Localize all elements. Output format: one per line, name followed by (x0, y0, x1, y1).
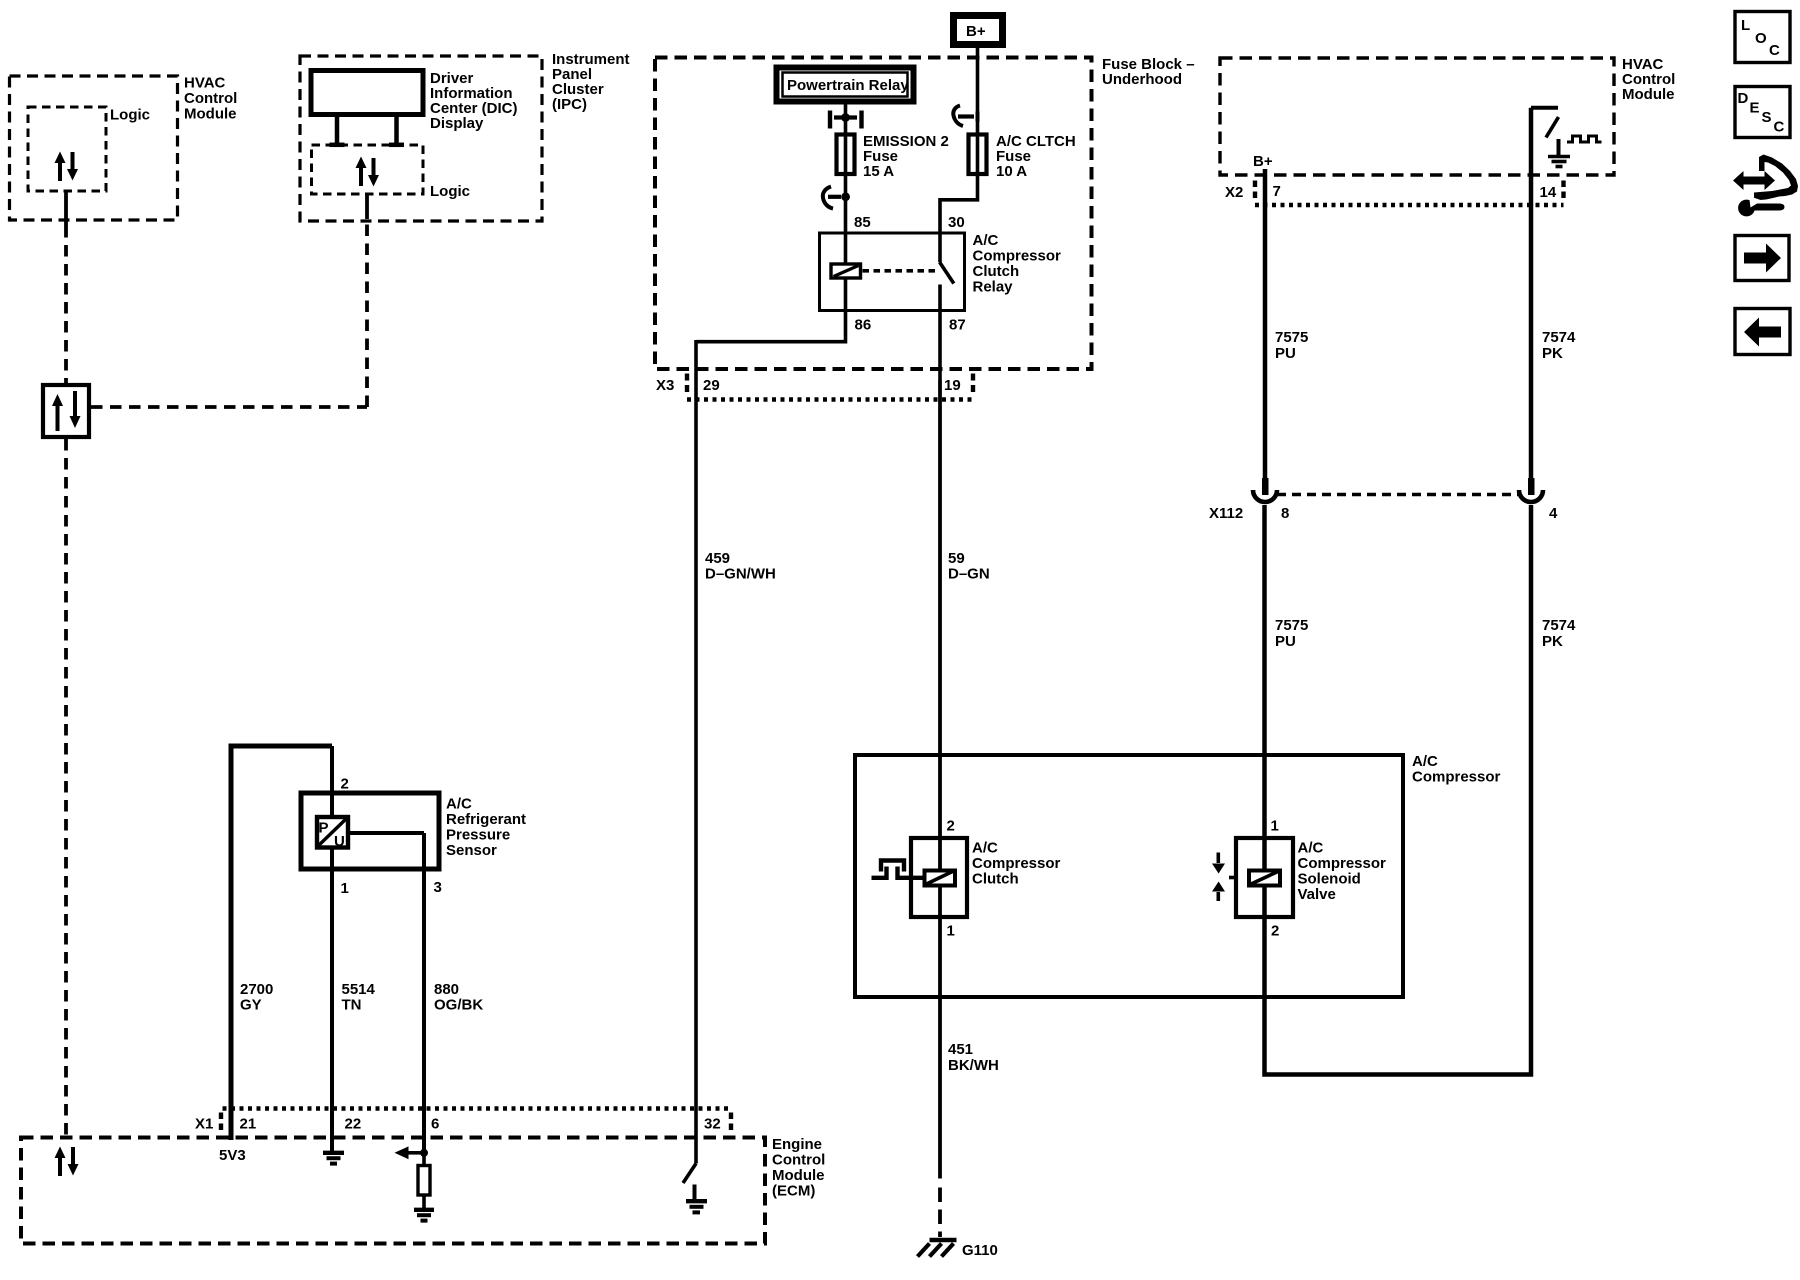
svg-text:Clutch: Clutch (973, 263, 1020, 280)
wire 7574 PK lower (X112-4 to solenoid pin 2) (1265, 505, 1532, 1075)
svg-text:451: 451 (948, 1041, 973, 1058)
relay coil to switch dashed link (863, 269, 937, 273)
svg-text:1: 1 (341, 880, 349, 897)
terminal bracket symbol under Powertrain Relay (828, 111, 832, 129)
svg-text:X3: X3 (656, 377, 674, 394)
svg-text:Relay: Relay (973, 279, 1014, 296)
svg-text:D–GN: D–GN (948, 566, 990, 583)
svg-text:7575: 7575 (1275, 329, 1308, 346)
forward arrow icon box (1735, 236, 1789, 281)
wire 5514 TN (sensor pin 1 to X1-22) (330, 848, 334, 1152)
svg-text:2700: 2700 (240, 981, 273, 998)
svg-text:OG/BK: OG/BK (434, 997, 483, 1014)
svg-text:Refrigerant: Refrigerant (446, 811, 526, 828)
P/U transducer square (317, 817, 348, 848)
svg-text:Control: Control (184, 90, 237, 107)
Driver Information Center (DIC) Display box (311, 71, 423, 115)
svg-text:7575: 7575 (1275, 617, 1308, 634)
X3 connector dotted row (687, 397, 973, 401)
X112 dashed link (1277, 493, 1518, 497)
solenoid coil (1249, 871, 1280, 886)
X112 inline connector pin 8 (male bar + female cup) (1262, 478, 1269, 495)
X112 inline connector pin 4 (male bar + female cup) (1528, 478, 1535, 495)
dashed serial data wire from node box down to ECM (64, 439, 68, 1137)
wire 880 OG/BK (sensor pin 3 to X1-6) (422, 833, 426, 1153)
svg-text:X1: X1 (195, 1116, 213, 1133)
schematic navigation icon (double arrow, chevron arrow, wrench) (1733, 155, 1798, 217)
svg-text:U: U (334, 833, 345, 850)
svg-text:1: 1 (1271, 818, 1279, 835)
svg-text:87: 87 (949, 317, 966, 334)
serial data node box (43, 385, 89, 437)
svg-text:Logic: Logic (430, 183, 470, 200)
ECM serial data up/down arrows (58, 1156, 62, 1176)
svg-text:Compressor: Compressor (972, 855, 1061, 872)
svg-text:7574: 7574 (1542, 617, 1576, 634)
svg-text:(IPC): (IPC) (552, 96, 587, 113)
svg-text:X2: X2 (1225, 184, 1243, 201)
HVAC right internal ground (1557, 139, 1561, 155)
svg-text:B+: B+ (1253, 153, 1273, 170)
A/C Compressor Clutch Relay box (820, 233, 965, 311)
IPC logic up/down arrows (359, 166, 363, 186)
DESC icon box (1735, 87, 1790, 138)
svg-text:2: 2 (341, 776, 349, 793)
clutch coil (925, 871, 956, 886)
svg-text:7: 7 (1273, 183, 1281, 200)
wire from HVAC left logic (solid then dashed serial data) (64, 191, 68, 226)
wire 7575 PU upper (X2-7 to X112-8) (1263, 169, 1268, 479)
wire IPC logic stub (365, 194, 369, 219)
HVAC right PWM square-wave symbol (1567, 136, 1602, 142)
solenoid valve arrows symbol (1217, 853, 1221, 864)
HVAC Control Module (right) dashed box (1220, 58, 1614, 175)
svg-text:B+: B+ (966, 23, 986, 40)
wire sensor top horizontal (229, 744, 333, 749)
svg-text:E: E (1750, 100, 1760, 117)
svg-text:O: O (1755, 30, 1767, 47)
svg-text:29: 29 (703, 377, 720, 394)
X2 connector right bracket (1561, 181, 1565, 201)
back arrow icon box (1735, 309, 1790, 355)
relay coil (831, 264, 861, 278)
splice tap symbol on EMISSION 2 wire (823, 187, 833, 209)
svg-text:Module: Module (772, 1167, 825, 1184)
svg-text:2: 2 (947, 818, 955, 835)
svg-text:A/C: A/C (973, 232, 999, 249)
svg-text:2: 2 (1271, 923, 1279, 940)
svg-text:S: S (1762, 109, 1772, 126)
svg-text:85: 85 (854, 214, 871, 231)
Fuse Block - Underhood dashed box (655, 58, 1092, 370)
wire 59 D-GN (X3-19 to compressor clutch) (938, 380, 942, 869)
X3 connector right bracket (971, 374, 975, 397)
wire relay 87 to X3-19 (938, 311, 942, 381)
svg-text:Compressor: Compressor (973, 248, 1062, 265)
svg-text:PK: PK (1542, 633, 1563, 650)
svg-text:32: 32 (704, 1116, 721, 1133)
wire 459 D-GN/WH (X3-29 to ECM X1-32) (694, 340, 698, 1164)
wire EMISSION 2 fuse to relay pin 85 (844, 176, 848, 233)
svg-text:22: 22 (345, 1116, 362, 1133)
svg-text:5V3: 5V3 (219, 1147, 246, 1164)
svg-text:C: C (1774, 119, 1785, 136)
wire sensor pin 2 drop (330, 746, 334, 815)
svg-text:X112: X112 (1209, 505, 1243, 522)
svg-text:Sensor: Sensor (446, 842, 497, 859)
DIC display legs (335, 115, 340, 144)
clutch wire through box (938, 885, 942, 997)
wire 7574 PK upper (X2-14 to X112-4) (1529, 108, 1534, 479)
svg-text:P: P (319, 820, 329, 837)
relay coil wire to pin 86 (844, 278, 848, 311)
svg-text:D–GN/WH: D–GN/WH (705, 566, 776, 583)
svg-text:Module: Module (1622, 86, 1675, 103)
svg-text:7574: 7574 (1542, 329, 1576, 346)
svg-text:30: 30 (948, 214, 965, 231)
svg-text:Compressor: Compressor (1298, 855, 1387, 872)
svg-text:HVAC: HVAC (184, 75, 226, 92)
svg-text:PK: PK (1542, 345, 1563, 362)
X1 connector right bracket (729, 1113, 733, 1134)
svg-text:5514: 5514 (342, 981, 376, 998)
ECM pin 6 node dot (420, 1149, 428, 1157)
svg-text:59: 59 (948, 550, 965, 567)
splice tap symbol on A/C CLTCH wire (953, 106, 963, 127)
B+ terminal box (954, 16, 1003, 45)
X1 connector left bracket (219, 1113, 223, 1134)
wire A/C CLTCH fuse to relay pin 30 (940, 176, 978, 233)
ECM pin 6 signal arrow (408, 1151, 424, 1155)
svg-text:15 A: 15 A (863, 163, 894, 180)
Powertrain Relay box (double border) (777, 68, 914, 102)
X2 connector left bracket (1253, 181, 1257, 201)
svg-text:PU: PU (1275, 345, 1296, 362)
svg-text:Solenoid: Solenoid (1298, 871, 1361, 888)
IPC Logic dashed box (312, 145, 424, 194)
A/C CLTCH fuse (969, 135, 987, 175)
svg-text:G110: G110 (962, 1242, 998, 1259)
svg-text:Valve: Valve (1298, 886, 1336, 903)
svg-text:Pressure: Pressure (446, 827, 510, 844)
HVAC left logic up/down arrows (58, 161, 62, 181)
svg-text:Engine: Engine (772, 1136, 822, 1153)
svg-text:Powertrain Relay: Powertrain Relay (787, 77, 909, 94)
wire relay 86 to X3-29 (696, 311, 846, 342)
svg-text:C: C (1769, 42, 1780, 59)
svg-text:BK/WH: BK/WH (948, 1057, 999, 1074)
EMISSION 2 fuse (837, 135, 855, 175)
svg-text:86: 86 (855, 317, 872, 334)
svg-text:Compressor: Compressor (1412, 769, 1501, 786)
dashed serial data wire from node box right to IPC (91, 405, 367, 409)
relay coil wire pin 85 (844, 233, 848, 263)
X2 connector dotted row (1255, 203, 1564, 207)
ECM pin 32 ground (686, 1199, 707, 1203)
svg-text:Display: Display (430, 115, 484, 132)
wire Powertrain Relay to EMISSION 2 fuse (844, 105, 848, 134)
X3 connector left bracket (685, 374, 689, 397)
clutch mechanical plates symbol (881, 861, 904, 872)
svg-text:10 A: 10 A (996, 163, 1027, 180)
svg-text:A/C: A/C (1298, 840, 1324, 857)
svg-text:14: 14 (1540, 184, 1557, 201)
svg-text:21: 21 (240, 1116, 257, 1133)
HVAC right internal switch to ground (1531, 106, 1558, 110)
svg-text:D: D (1738, 90, 1749, 107)
svg-text:880: 880 (434, 981, 459, 998)
svg-text:Underhood: Underhood (1102, 71, 1182, 88)
wire 451 BK/WH (clutch pin 1 to G110) (938, 997, 942, 1179)
svg-text:A/C: A/C (1412, 753, 1438, 770)
serial data node arrows (56, 404, 60, 431)
svg-text:459: 459 (705, 550, 730, 567)
svg-text:4: 4 (1549, 505, 1558, 522)
svg-text:8: 8 (1281, 505, 1289, 522)
X1 connector dotted row (223, 1106, 732, 1110)
svg-text:PU: PU (1275, 633, 1296, 650)
A/C Compressor box (855, 755, 1403, 997)
wire 2700 GY vertical (sensor feed to X1-21) (229, 746, 234, 1140)
A/C Compressor Clutch box (911, 838, 967, 917)
ECM pull-down resistor (422, 1153, 426, 1166)
svg-text:A/C: A/C (972, 840, 998, 857)
G110 ground symbol (930, 1238, 957, 1243)
ECM resistor ground (414, 1208, 434, 1212)
svg-text:1: 1 (947, 923, 955, 940)
A/C Refrigerant Pressure Sensor box (301, 793, 439, 869)
svg-text:Control: Control (772, 1152, 825, 1169)
svg-text:A/C: A/C (446, 796, 472, 813)
svg-text:3: 3 (434, 879, 442, 896)
wire B+ to A/C CLTCH fuse (976, 48, 980, 133)
HVAC Control Module (left) dashed box (10, 76, 178, 220)
svg-text:Logic: Logic (110, 107, 150, 124)
svg-text:6: 6 (431, 1116, 439, 1133)
HVAC left Logic dashed box (28, 107, 106, 191)
svg-text:Clutch: Clutch (972, 871, 1019, 888)
svg-text:TN: TN (342, 997, 362, 1014)
LOC icon box (1735, 12, 1790, 63)
svg-text:19: 19 (944, 377, 961, 394)
ECM pin 32 switch to ground (683, 1164, 696, 1184)
svg-text:(ECM): (ECM) (772, 1183, 815, 1200)
ECM pin 22 internal ground (323, 1151, 344, 1155)
svg-text:L: L (1741, 17, 1750, 34)
svg-text:Module: Module (184, 106, 237, 123)
wire 7575 PU lower (X112-8 to solenoid pin 1) (1262, 505, 1267, 869)
svg-text:GY: GY (240, 997, 262, 1014)
Engine Control Module dashed box (21, 1138, 765, 1244)
relay switch (938, 233, 942, 262)
wire P/U to pin 3 (349, 831, 425, 835)
Instrument Panel Cluster dashed box (300, 56, 542, 221)
A/C Compressor Solenoid Valve box (1236, 838, 1293, 917)
